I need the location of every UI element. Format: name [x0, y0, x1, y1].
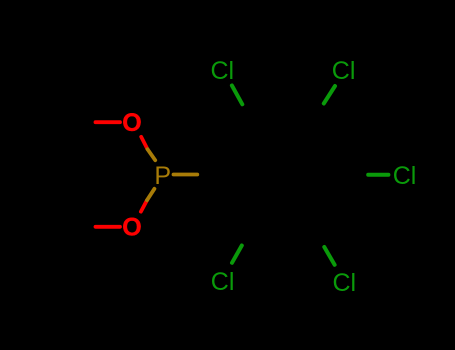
svg-text:O: O — [122, 214, 141, 242]
svg-text:Cl: Cl — [211, 57, 235, 85]
svg-text:Cl: Cl — [333, 269, 357, 297]
svg-text:Cl: Cl — [211, 268, 235, 296]
svg-text:O: O — [122, 109, 141, 137]
svg-text:Cl: Cl — [393, 162, 417, 190]
svg-text:P: P — [154, 162, 171, 190]
svg-text:Cl: Cl — [332, 57, 356, 85]
